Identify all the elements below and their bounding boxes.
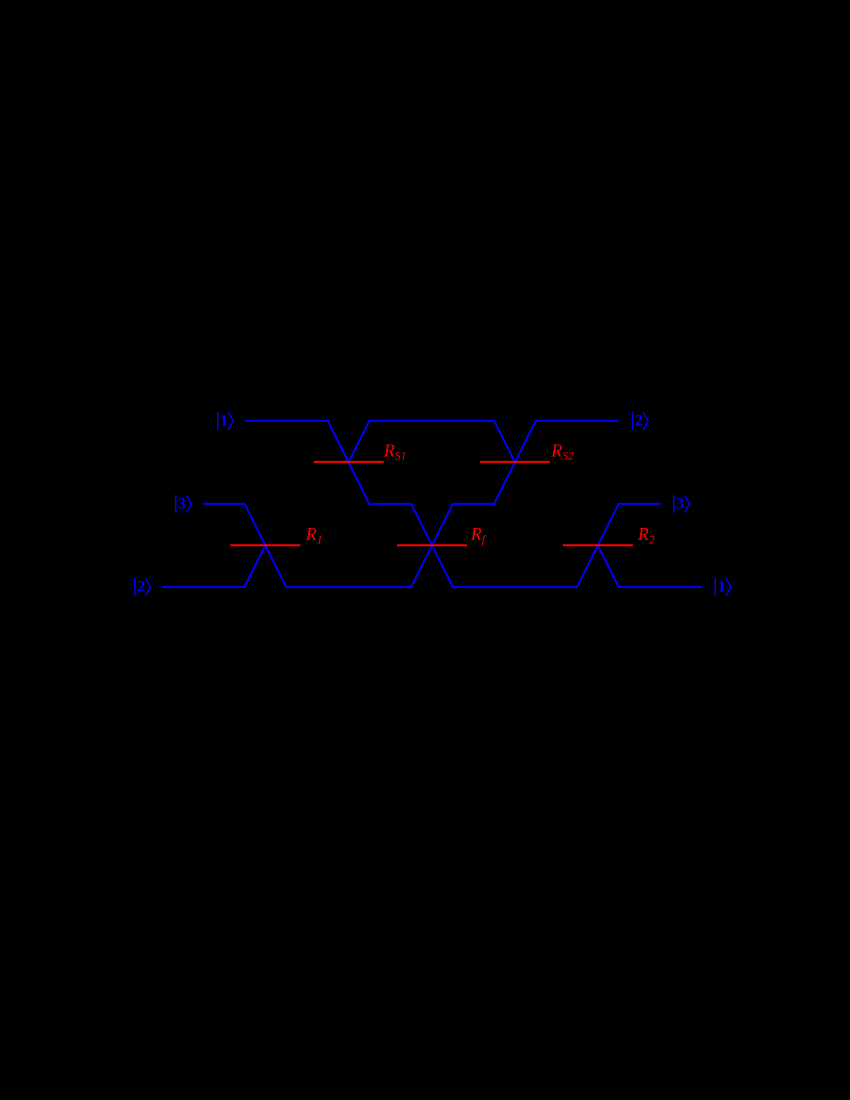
node label ket1 top-left [218, 412, 234, 430]
node label ket2 bottom-left [135, 578, 151, 596]
beamsplitter RS1 [314, 461, 384, 463]
svg-text:1: 1 [220, 412, 228, 429]
wire: from mirror R2 down to |1> bottom-right [598, 545, 702, 587]
beamsplitter RS2 [480, 461, 550, 463]
node label ket1 bottom-right [715, 578, 731, 596]
wire: top bridge RS1 to RS2 [349, 421, 515, 462]
svg-text:2: 2 [137, 578, 145, 595]
svg-text:1: 1 [718, 578, 726, 595]
node label ket3 mid-left [176, 495, 192, 513]
svg-text:2: 2 [635, 412, 643, 429]
svg-text:3: 3 [178, 495, 186, 512]
wire: path |3> mid-left through R1, Rf, RS2 to |2> top-right [203, 421, 619, 587]
node label ket3 mid-right [674, 495, 690, 513]
node label ket2 top-right [633, 412, 649, 430]
wire: path |2> bottom-left up to mirror R1 [162, 545, 265, 587]
svg-text:3: 3 [676, 495, 684, 512]
beamsplitter R1 [230, 544, 300, 546]
beamsplitter Rf [397, 544, 467, 546]
beamsplitter R2 [563, 544, 633, 546]
wire: path |1> top-left through RS1, Rf, R2 to |3> mid-right [245, 421, 661, 587]
